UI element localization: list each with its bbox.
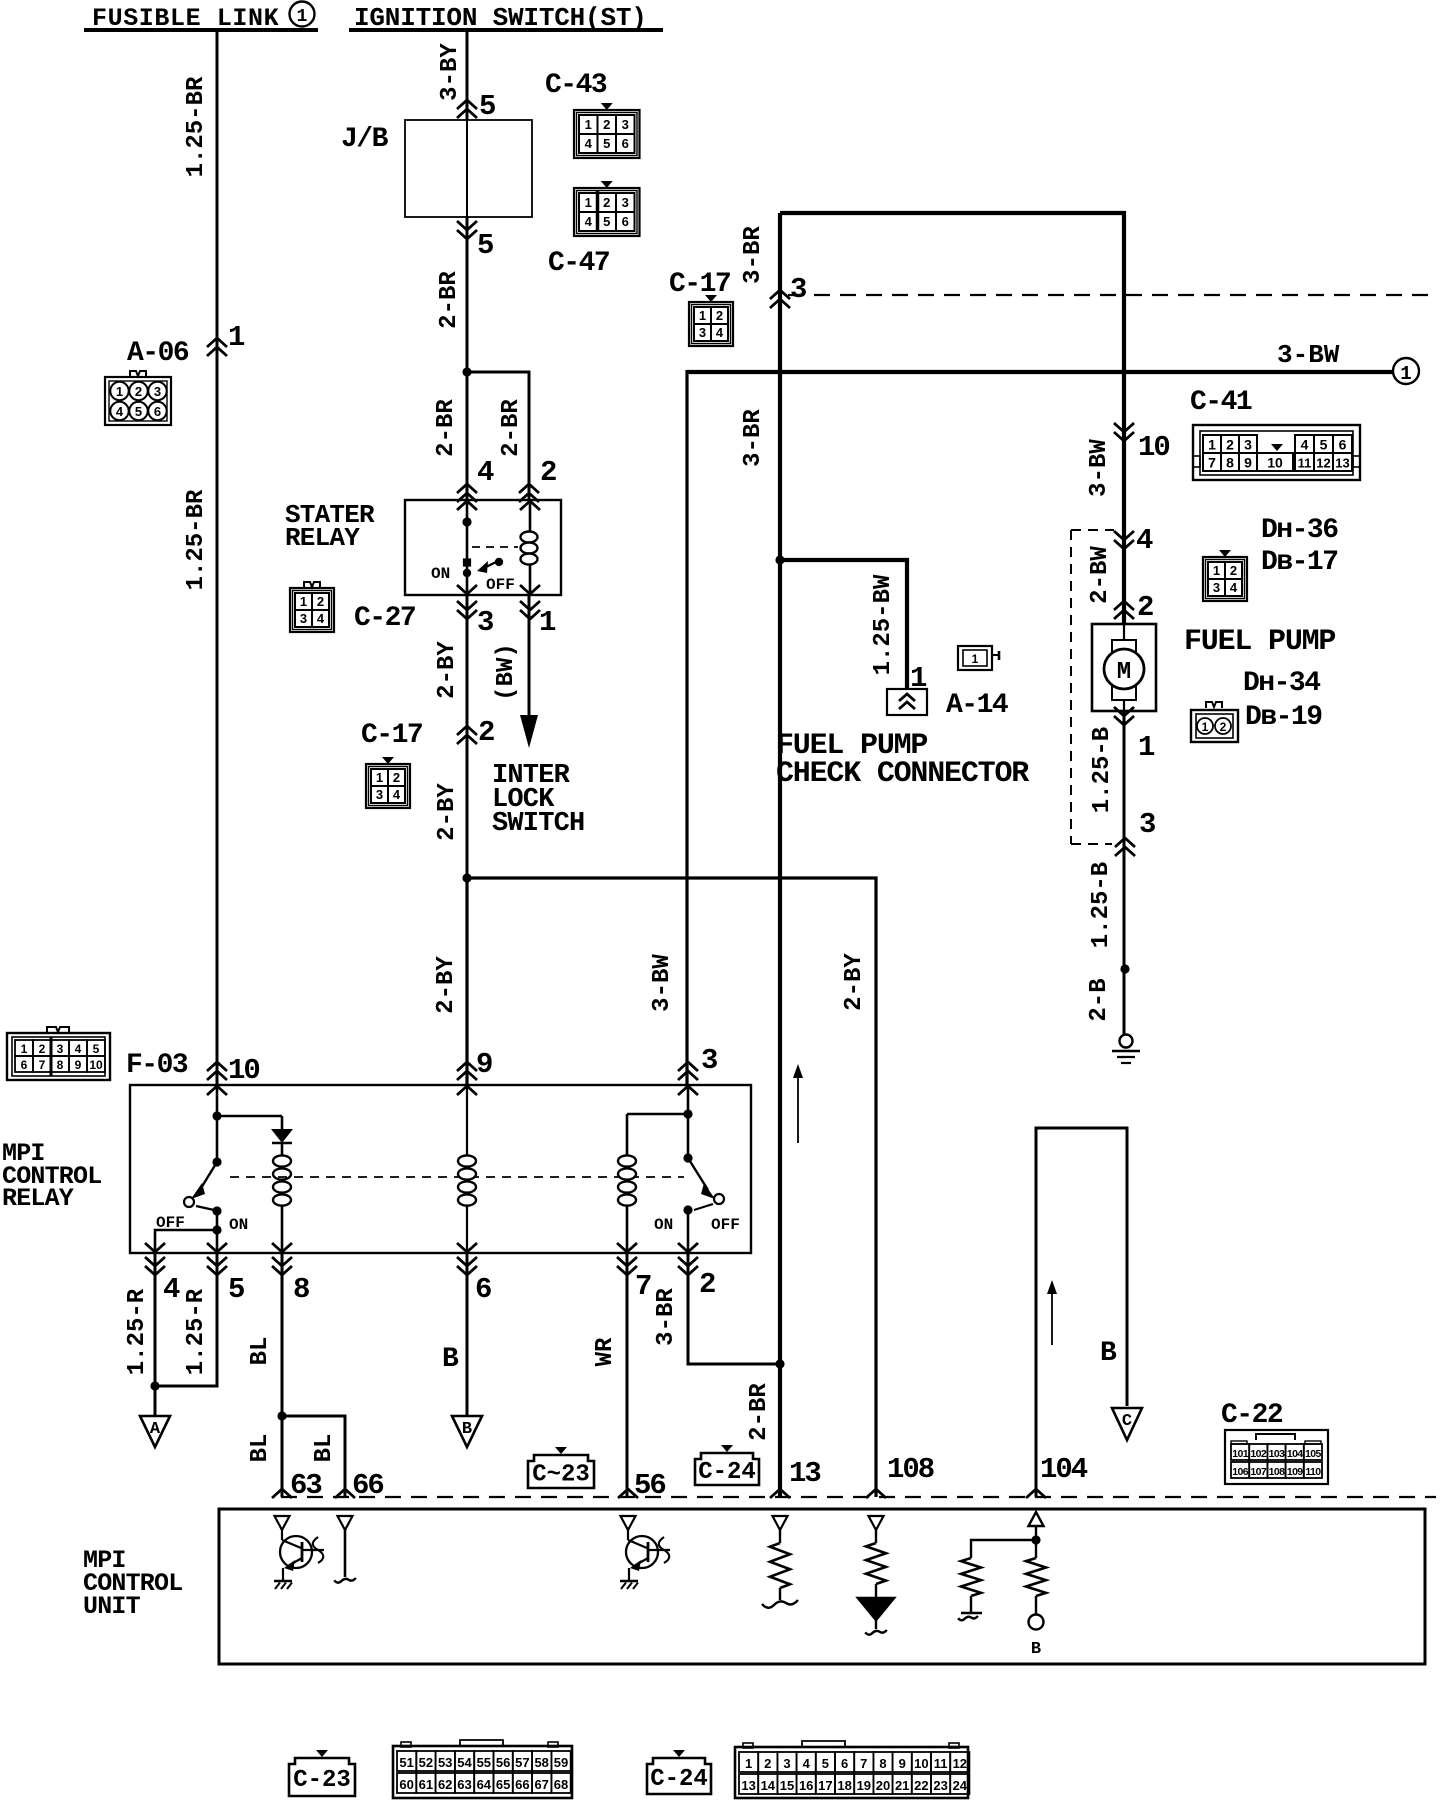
- svg-text:6: 6: [475, 1273, 491, 1306]
- connector A-06 glyph: [130, 371, 146, 377]
- junction dot ground wire: [1120, 964, 1129, 973]
- svg-text:57: 57: [515, 1755, 529, 1770]
- svg-text:ON: ON: [431, 565, 450, 583]
- connector C-17 glyph left: [382, 757, 394, 764]
- pin 104 output triangle: [1029, 1512, 1044, 1526]
- svg-text:3: 3: [783, 1756, 790, 1771]
- svg-text:109: 109: [1287, 1466, 1303, 1478]
- connector C-17 crossing pin 2: [457, 726, 477, 735]
- svg-text:A: A: [150, 1420, 161, 1439]
- relay1 coil: [273, 1155, 291, 1166]
- svg-text:1.25-B: 1.25-B: [1088, 862, 1115, 948]
- relay bottom pin chevron x=627: [617, 1243, 637, 1252]
- terminal circle B: [1029, 1615, 1044, 1630]
- svg-text:9: 9: [1244, 455, 1252, 471]
- stater relay pin4 internal wire: [466, 500, 469, 595]
- svg-text:108: 108: [887, 1453, 934, 1486]
- svg-text:4: 4: [1136, 524, 1153, 557]
- connector C-43 glyph: [601, 103, 613, 110]
- svg-text:A-14: A-14: [946, 690, 1008, 721]
- svg-text:3-BY: 3-BY: [437, 43, 464, 101]
- stater relay OFF contact dot: [495, 558, 503, 566]
- svg-text:2: 2: [764, 1756, 771, 1771]
- svg-text:4: 4: [163, 1273, 180, 1306]
- svg-text:1.25-BR: 1.25-BR: [183, 76, 210, 177]
- wire through J/B: [466, 120, 468, 217]
- svg-text:2-BY: 2-BY: [434, 783, 461, 841]
- wire horizontal top 3-BR to fuel pump feed: [780, 213, 1124, 624]
- svg-text:3: 3: [154, 384, 161, 399]
- pin 108 input triangle: [869, 1516, 884, 1530]
- relay1 pin10 wire: [207, 1086, 227, 1095]
- svg-text:BL: BL: [247, 1434, 274, 1463]
- svg-text:3: 3: [790, 273, 806, 306]
- connector A-14 glyph: [958, 646, 992, 670]
- svg-text:5: 5: [822, 1756, 829, 1771]
- svg-text:1: 1: [228, 321, 245, 354]
- svg-text:3: 3: [622, 195, 629, 210]
- svg-text:102: 102: [1250, 1448, 1266, 1460]
- svg-text:10: 10: [228, 1054, 259, 1087]
- junction dot ignition branch: [462, 367, 471, 376]
- svg-text:RELAY: RELAY: [285, 523, 360, 553]
- svg-text:55: 55: [477, 1755, 491, 1770]
- svg-text:3: 3: [1139, 808, 1155, 841]
- relay2 link to coil: [627, 1113, 688, 1116]
- connector C-23 badge bottom: [316, 1750, 328, 1757]
- transistor pin 63: [281, 1530, 283, 1540]
- relay1 wire to pin 4: [155, 1230, 217, 1253]
- svg-text:4: 4: [75, 1042, 82, 1056]
- svg-text:13: 13: [1335, 456, 1349, 471]
- svg-text:2: 2: [540, 456, 556, 489]
- svg-text:5: 5: [477, 229, 493, 262]
- wire BL pin8: [281, 1253, 284, 1497]
- relay internal pin 9 wire: [466, 1085, 468, 1253]
- svg-text:B: B: [1031, 1640, 1041, 1659]
- svg-text:66: 66: [515, 1777, 529, 1792]
- svg-text:8: 8: [879, 1756, 886, 1771]
- svg-text:1: 1: [1213, 563, 1220, 578]
- stater relay switch arm: [484, 561, 498, 568]
- svg-text:B: B: [462, 1420, 472, 1439]
- svg-text:51: 51: [399, 1755, 413, 1770]
- wire horizontal to 2-BY: [467, 878, 876, 1497]
- relay bottom pin chevron x=467: [457, 1243, 477, 1252]
- svg-text:107: 107: [1250, 1466, 1266, 1478]
- relay middle coil: [458, 1155, 476, 1166]
- svg-text:BL: BL: [247, 1337, 274, 1366]
- connector C-22 glyph: [1225, 1430, 1328, 1484]
- resistor pin 13: [779, 1530, 781, 1543]
- svg-text:2-B: 2-B: [1086, 978, 1113, 1021]
- unit pin chevrons: [272, 1489, 292, 1498]
- svg-text:1: 1: [1400, 363, 1411, 385]
- relay2 pin3 wire: [678, 1086, 698, 1095]
- svg-text:C: C: [1122, 1412, 1132, 1431]
- svg-text:61: 61: [419, 1777, 433, 1792]
- relay1 lower dot: [212, 1225, 221, 1234]
- relay box STATER RELAY: [405, 500, 561, 595]
- svg-text:10: 10: [89, 1058, 103, 1072]
- svg-text:7: 7: [635, 1270, 651, 1303]
- connector C-41 glyph: [1193, 425, 1360, 480]
- junction dot interlock: [462, 873, 471, 882]
- relay1 link to coil: [217, 1115, 282, 1118]
- svg-text:6: 6: [622, 136, 629, 151]
- flow arrow up loop: [1051, 1288, 1053, 1345]
- wire 3-BW vertical to relay pin 3: [685, 370, 688, 1085]
- triangle A: [154, 1415, 156, 1417]
- svg-text:1: 1: [21, 1042, 28, 1056]
- transistor pin 56: [627, 1530, 629, 1540]
- pin 66 stub: [344, 1530, 347, 1577]
- connector C-24 badge: [721, 1445, 733, 1452]
- wire (BW) interlock switch: [528, 595, 531, 718]
- relay2 switch arm: [688, 1158, 708, 1190]
- svg-text:11: 11: [1298, 456, 1312, 471]
- svg-text:2: 2: [39, 1042, 46, 1056]
- svg-text:58: 58: [534, 1755, 548, 1770]
- svg-text:2-BY: 2-BY: [433, 956, 460, 1014]
- svg-text:2: 2: [716, 308, 723, 323]
- off-page connector circled 1: [1393, 358, 1419, 384]
- chevron fuel pump pin 2: [1114, 601, 1134, 610]
- dashed connector line MPI unit: [281, 1496, 1436, 1498]
- relay2 contact link: [694, 1204, 713, 1210]
- connector C-17 glyph top: [705, 295, 717, 302]
- svg-text:OFF: OFF: [156, 1214, 185, 1232]
- svg-text:3-BR: 3-BR: [740, 409, 767, 467]
- pin 13 input triangle: [773, 1516, 788, 1530]
- svg-text:2: 2: [1220, 720, 1227, 734]
- svg-text:2-BR: 2-BR: [433, 399, 460, 457]
- svg-text:23: 23: [933, 1778, 947, 1793]
- connector C-24 grid: [735, 1747, 968, 1798]
- chevron Dh-34 pin 3: [1115, 838, 1135, 847]
- wire B pin6: [466, 1253, 469, 1416]
- svg-text:4: 4: [585, 214, 593, 229]
- ground symbol fuel pump: [1120, 1035, 1133, 1048]
- svg-text:1.25-B: 1.25-B: [1089, 727, 1116, 813]
- svg-text:10: 10: [914, 1756, 928, 1771]
- svg-text:6: 6: [1339, 437, 1347, 453]
- svg-text:Dʜ-34: Dʜ-34: [1243, 668, 1320, 699]
- svg-text:4: 4: [317, 611, 325, 626]
- svg-text:CHECK CONNECTOR: CHECK CONNECTOR: [776, 757, 1029, 791]
- svg-text:20: 20: [876, 1778, 890, 1793]
- connector Dh-34 glyph: [1206, 702, 1222, 708]
- svg-text:13: 13: [789, 1457, 820, 1490]
- svg-text:65: 65: [496, 1777, 510, 1792]
- svg-text:105: 105: [1305, 1448, 1321, 1460]
- chevron Dh-36 pin 4: [1114, 531, 1134, 540]
- svg-text:Dʙ-19: Dʙ-19: [1245, 702, 1322, 733]
- wire 2-BY below stater relay: [466, 595, 469, 878]
- relay2 OFF contact circle: [714, 1194, 724, 1204]
- svg-text:ON: ON: [229, 1216, 248, 1234]
- svg-text:Dʙ-17: Dʙ-17: [1261, 547, 1338, 578]
- svg-text:2-BW: 2-BW: [1087, 546, 1114, 604]
- wire 2-BY to relay pin 9: [465, 878, 468, 1085]
- svg-text:2: 2: [317, 594, 324, 609]
- relay1 wire to pin 5: [216, 1211, 219, 1253]
- svg-text:2: 2: [699, 1268, 715, 1301]
- pin 104 node: [1035, 1526, 1037, 1558]
- relay2 coil: [618, 1155, 636, 1166]
- svg-text:ON: ON: [654, 1216, 673, 1234]
- svg-text:17: 17: [818, 1778, 832, 1793]
- svg-text:M: M: [1117, 659, 1131, 686]
- svg-text:2: 2: [1137, 591, 1153, 624]
- svg-text:12: 12: [953, 1756, 967, 1771]
- svg-text:3: 3: [699, 325, 706, 340]
- pin 56 input triangle: [621, 1516, 636, 1530]
- svg-text:106: 106: [1232, 1466, 1248, 1478]
- resistor pin 108: [875, 1530, 877, 1543]
- relay bottom pin chevron x=688: [678, 1243, 698, 1252]
- svg-text:8: 8: [57, 1058, 64, 1072]
- svg-text:2-BY: 2-BY: [434, 641, 461, 699]
- svg-text:OFF: OFF: [711, 1216, 740, 1234]
- svg-text:59: 59: [554, 1755, 568, 1770]
- svg-text:1: 1: [585, 117, 592, 132]
- stater relay coil wire pin1: [529, 500, 532, 595]
- connector C-23 badge: [555, 1447, 567, 1454]
- svg-text:4: 4: [585, 136, 593, 151]
- svg-text:2-BY: 2-BY: [841, 953, 868, 1011]
- svg-text:3: 3: [57, 1042, 64, 1056]
- junction dot check connector: [775, 555, 784, 564]
- relay1 switch pivot: [212, 1157, 221, 1166]
- relay2 switch pivot: [683, 1153, 692, 1162]
- stater relay ON contact: [464, 559, 471, 566]
- svg-text:BL: BL: [311, 1434, 338, 1463]
- svg-text:52: 52: [419, 1755, 433, 1770]
- svg-text:3: 3: [477, 606, 493, 639]
- svg-text:101: 101: [1232, 1448, 1248, 1460]
- svg-text:5: 5: [479, 90, 495, 123]
- svg-text:3: 3: [376, 787, 383, 802]
- svg-text:2: 2: [135, 384, 142, 399]
- svg-text:1: 1: [539, 606, 556, 639]
- pin 66 input triangle: [338, 1516, 353, 1530]
- svg-text:C-17: C-17: [669, 269, 730, 300]
- terminal box A-14: [887, 689, 927, 715]
- svg-text:56: 56: [496, 1755, 510, 1770]
- relay bottom pin chevron x=282: [272, 1243, 292, 1252]
- connector C-27 glyph: [304, 582, 320, 588]
- svg-text:3: 3: [1244, 437, 1252, 453]
- svg-text:C-47: C-47: [548, 248, 609, 279]
- junction dot 2-BR: [775, 1359, 784, 1368]
- svg-text:9: 9: [899, 1756, 906, 1771]
- svg-text:C-22: C-22: [1221, 1400, 1283, 1431]
- svg-text:WR: WR: [592, 1337, 619, 1366]
- svg-text:2: 2: [1230, 563, 1237, 578]
- svg-text:2: 2: [393, 770, 400, 785]
- wire branch to stater relay pin 2: [467, 372, 529, 500]
- svg-text:53: 53: [438, 1755, 452, 1770]
- svg-text:1.25-R: 1.25-R: [124, 1288, 151, 1375]
- svg-text:2: 2: [603, 195, 610, 210]
- diode triangle pin 108: [858, 1598, 894, 1620]
- svg-text:104: 104: [1040, 1453, 1088, 1486]
- svg-text:UNIT: UNIT: [83, 1592, 141, 1621]
- relay2 ON contact dot: [683, 1205, 692, 1214]
- svg-text:1: 1: [745, 1756, 752, 1771]
- connector Dh-36 glyph: [1219, 550, 1231, 557]
- connector C-24 badge bottom: [673, 1750, 685, 1757]
- fuel pump motor: [1092, 624, 1156, 711]
- pin 63 input triangle: [275, 1516, 290, 1530]
- svg-text:1.25-BW: 1.25-BW: [870, 574, 897, 675]
- svg-text:15: 15: [780, 1778, 794, 1793]
- box MPI CONTROL UNIT: [219, 1509, 1425, 1664]
- svg-text:13: 13: [741, 1778, 755, 1793]
- svg-text:6: 6: [154, 404, 161, 419]
- svg-text:1: 1: [1202, 720, 1209, 734]
- svg-text:8: 8: [1226, 455, 1234, 471]
- chevron stater pin 2: [519, 484, 539, 493]
- relay dashed link line: [230, 1176, 684, 1178]
- svg-text:1: 1: [1208, 437, 1216, 453]
- svg-text:12: 12: [1316, 456, 1330, 471]
- svg-text:1: 1: [376, 770, 383, 785]
- svg-text:(BW): (BW): [493, 643, 520, 701]
- svg-text:67: 67: [534, 1777, 548, 1792]
- svg-text:2-BR: 2-BR: [436, 271, 463, 329]
- svg-text:C~23: C~23: [532, 1462, 590, 1489]
- svg-text:6: 6: [841, 1756, 848, 1771]
- flow arrow up 3-BR: [797, 1072, 799, 1143]
- chevron fuel pump pin 1: [1114, 707, 1134, 716]
- svg-text:1: 1: [585, 195, 592, 210]
- svg-text:9: 9: [476, 1048, 492, 1081]
- svg-text:1: 1: [699, 308, 706, 323]
- svg-text:FUEL PUMP: FUEL PUMP: [1184, 625, 1335, 659]
- svg-text:4: 4: [393, 787, 401, 802]
- svg-text:SWITCH: SWITCH: [492, 809, 584, 839]
- stater relay coil: [521, 532, 538, 543]
- svg-text:C-41: C-41: [1190, 387, 1252, 418]
- wire 3-BW horizontal to off-page 1: [686, 370, 688, 374]
- svg-text:C-24: C-24: [698, 1459, 756, 1486]
- svg-text:B: B: [1100, 1338, 1117, 1369]
- svg-text:C-23: C-23: [293, 1767, 351, 1794]
- relay1 ON contact dot: [212, 1206, 221, 1215]
- svg-text:3-BW: 3-BW: [1086, 439, 1113, 497]
- svg-text:10: 10: [1267, 455, 1283, 471]
- svg-text:68: 68: [554, 1777, 568, 1792]
- dashed fuel pump boundary: [1071, 529, 1114, 531]
- svg-text:OFF: OFF: [486, 576, 515, 594]
- svg-text:19: 19: [857, 1778, 871, 1793]
- relay1 switch arm: [198, 1162, 217, 1193]
- triangle B: [452, 1416, 482, 1447]
- svg-text:2-BR: 2-BR: [498, 399, 525, 457]
- svg-text:1: 1: [972, 652, 979, 666]
- svg-text:1: 1: [1138, 731, 1155, 764]
- chevron stater pin 3: [457, 585, 477, 594]
- connector C-23 grid: [393, 1746, 572, 1798]
- chevron stater pin 4: [457, 484, 477, 493]
- svg-text:54: 54: [457, 1755, 472, 1770]
- wire 1.25-B pump ground: [1123, 711, 1126, 1034]
- svg-text:6: 6: [21, 1058, 28, 1072]
- svg-text:2: 2: [1226, 437, 1234, 453]
- wire 2-BR to pin13: [778, 1364, 782, 1497]
- svg-text:11: 11: [934, 1756, 948, 1771]
- svg-text:16: 16: [799, 1778, 813, 1793]
- svg-text:1.25-BR: 1.25-BR: [183, 489, 210, 590]
- resistor pair pin 104: [971, 1540, 1036, 1558]
- svg-text:5: 5: [93, 1042, 100, 1056]
- svg-text:3: 3: [1213, 580, 1220, 595]
- relay top pin 3 chevron: [678, 1062, 698, 1071]
- svg-text:4: 4: [477, 456, 494, 489]
- wire 3-BR vertical: [778, 213, 782, 1364]
- svg-text:3-BW: 3-BW: [649, 954, 676, 1012]
- wire BL branch 66: [282, 1416, 345, 1497]
- svg-text:8: 8: [293, 1273, 309, 1306]
- relay1 OFF contact circle: [184, 1197, 194, 1207]
- chevron J/B top pin 5: [457, 100, 477, 109]
- svg-text:24: 24: [953, 1778, 968, 1793]
- junction dot relay1: [212, 1111, 221, 1120]
- svg-text:5: 5: [603, 214, 610, 229]
- svg-text:F-03: F-03: [126, 1050, 188, 1081]
- dashed line C-17: [788, 294, 1436, 296]
- connector C-17 crossing pin 3: [770, 290, 790, 299]
- svg-text:14: 14: [761, 1778, 776, 1793]
- wire 1.25-R pin5: [155, 1253, 217, 1386]
- svg-text:108: 108: [1269, 1466, 1285, 1478]
- arrowhead interlock: [520, 715, 538, 748]
- svg-text:3: 3: [701, 1044, 717, 1077]
- wire 3-BY ignition vertical: [466, 32, 469, 120]
- svg-text:2: 2: [603, 117, 610, 132]
- ground pin 56: [620, 1580, 638, 1582]
- junction dot A: [150, 1381, 159, 1390]
- svg-text:2-BR: 2-BR: [746, 1383, 773, 1441]
- ground pin 63: [274, 1580, 292, 1582]
- svg-text:10: 10: [1138, 431, 1169, 464]
- svg-text:104: 104: [1287, 1448, 1303, 1460]
- relay1 diode: [281, 1116, 284, 1129]
- svg-text:5: 5: [1320, 437, 1328, 453]
- connector C-47 glyph: [601, 181, 613, 188]
- svg-text:21: 21: [895, 1778, 909, 1793]
- stater relay dashed link: [472, 546, 518, 548]
- svg-text:18: 18: [837, 1778, 851, 1793]
- svg-text:RELAY: RELAY: [2, 1184, 74, 1213]
- svg-text:6: 6: [622, 214, 629, 229]
- svg-text:B: B: [442, 1344, 459, 1375]
- connector F-03 glyph: [47, 1027, 69, 1033]
- junction dot BL: [277, 1411, 286, 1420]
- relay2 wire to pin 2: [687, 1210, 690, 1253]
- svg-text:C-17: C-17: [361, 720, 422, 751]
- svg-text:3-BR: 3-BR: [740, 226, 767, 284]
- svg-text:4: 4: [1230, 580, 1238, 595]
- svg-text:3: 3: [300, 611, 307, 626]
- svg-text:4: 4: [116, 404, 124, 419]
- svg-text:4: 4: [716, 325, 724, 340]
- svg-text:60: 60: [399, 1777, 413, 1792]
- wire 3-BR pin2: [688, 1253, 780, 1364]
- wire 1.25-BR fusible link vertical: [216, 32, 219, 1085]
